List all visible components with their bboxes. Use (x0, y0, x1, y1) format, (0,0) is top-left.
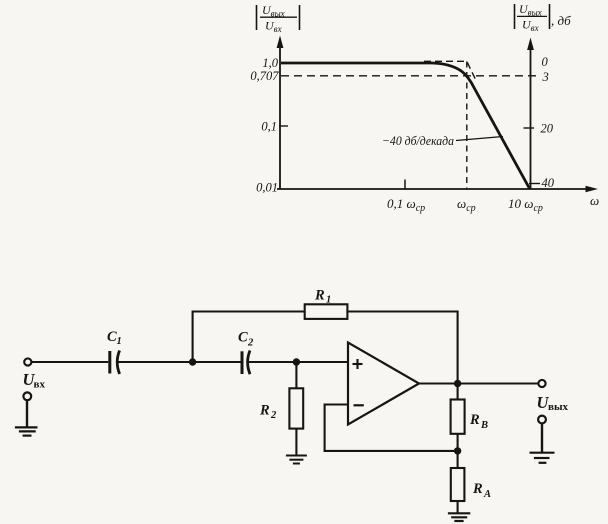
annotation -40 dB/decade (382, 133, 503, 148)
input terminal Uvx (24, 358, 31, 365)
dashed horizontal line at 0.707 / -3 dB (281, 75, 540, 77)
left axis value labels (250, 56, 279, 195)
ground (R2) (286, 456, 307, 464)
svg-text:3: 3 (542, 70, 549, 84)
op-amp U1 (348, 343, 419, 425)
label C2 (238, 330, 254, 349)
left axis fraction label |Uvyx/Uvx| (257, 3, 300, 34)
svg-text:вых: вых (548, 401, 569, 413)
label R1 (314, 288, 331, 306)
svg-text:1,0: 1,0 (262, 56, 278, 70)
wire node B down to R2 (295, 362, 297, 388)
right y-axis arrowhead (527, 38, 534, 51)
wire node B to op-amp noninverting input (296, 361, 348, 363)
capacitor C2 (242, 351, 250, 375)
wire inverting input feedback loop (325, 405, 458, 451)
svg-text:R: R (472, 481, 483, 497)
resistor R2 (289, 388, 303, 428)
wire input to C1 (32, 361, 109, 363)
node B junction (293, 358, 300, 365)
svg-text:В: В (480, 420, 488, 431)
ground (RA) (448, 513, 470, 521)
right axis value labels (541, 55, 555, 190)
resistor RB (451, 400, 465, 434)
x-axis arrowhead (586, 186, 599, 193)
svg-text:ω: ω (590, 193, 599, 208)
right y-axis (dB axis) (530, 46, 532, 189)
output ground terminal circle (538, 416, 546, 424)
svg-text:1: 1 (326, 295, 331, 306)
svg-text:вх: вх (34, 379, 46, 391)
wire output ground down (541, 424, 543, 453)
wire RA to ground (457, 501, 459, 513)
svg-text:0,707: 0,707 (250, 69, 279, 83)
wire C1 to node A (118, 361, 193, 363)
svg-text:, дб: , дб (551, 13, 571, 28)
label Uvyx (537, 393, 569, 413)
left axis tick 0.1 (279, 125, 288, 127)
right axis tick -40 (529, 183, 540, 185)
svg-text:R: R (469, 412, 480, 428)
svg-text:R: R (259, 403, 270, 419)
svg-text:20: 20 (541, 122, 554, 136)
label C1 (107, 329, 122, 347)
label RA (472, 481, 491, 500)
svg-text:−40 дб/декада: −40 дб/декада (382, 133, 454, 148)
svg-text:2: 2 (247, 338, 254, 349)
wire node A to C2 (193, 361, 241, 363)
svg-text:C: C (107, 329, 117, 345)
resistor RA (451, 468, 465, 501)
wire C2 to node B (248, 361, 296, 363)
wire node A up and right to R1 (193, 312, 305, 363)
svg-text:0,01: 0,01 (256, 181, 278, 195)
svg-text:R: R (314, 288, 325, 304)
svg-text:0: 0 (542, 55, 549, 69)
svg-text:А: А (483, 489, 491, 500)
label RB (469, 412, 488, 431)
node C junction (output node) (454, 380, 461, 387)
wire R1 right to output rail (347, 312, 457, 384)
left y-axis arrowhead (277, 36, 284, 49)
node A junction (189, 358, 196, 365)
resistor R1 (305, 304, 348, 319)
svg-text:2: 2 (270, 410, 277, 421)
capacitor C1 (110, 351, 120, 375)
frequency response solid curve (281, 63, 530, 189)
wire ground terminal down (26, 401, 28, 428)
x-axis omega (277, 188, 589, 190)
output terminal Uvyx (538, 380, 545, 387)
x-axis tick 0.1wcp (404, 180, 406, 190)
svg-text:0,1: 0,1 (261, 120, 277, 134)
dashed asymptote corner at 1.0 level (424, 61, 477, 81)
label Uvx (23, 370, 46, 391)
left y-axis (linear ratio axis) (279, 44, 281, 190)
node D junction (454, 447, 461, 454)
wire R2 to ground (295, 429, 297, 456)
ground (input) (15, 427, 38, 435)
dashed vertical line at omega_cp (466, 62, 468, 190)
input ground terminal circle (23, 392, 31, 400)
svg-text:1: 1 (117, 336, 122, 347)
right axis tick -20 (524, 127, 535, 129)
wire op-amp output (419, 382, 538, 384)
wire node D to RA (457, 451, 459, 468)
svg-text:C: C (238, 330, 248, 346)
wire RB to node D (457, 434, 459, 451)
x-axis value labels (387, 193, 599, 214)
svg-text:40: 40 (542, 176, 555, 190)
label R2 (259, 403, 277, 422)
wire node C down to RB (457, 384, 459, 400)
right axis fraction label |Uvyx/Uvx|, dB (515, 2, 572, 33)
ground (output) (530, 453, 555, 463)
